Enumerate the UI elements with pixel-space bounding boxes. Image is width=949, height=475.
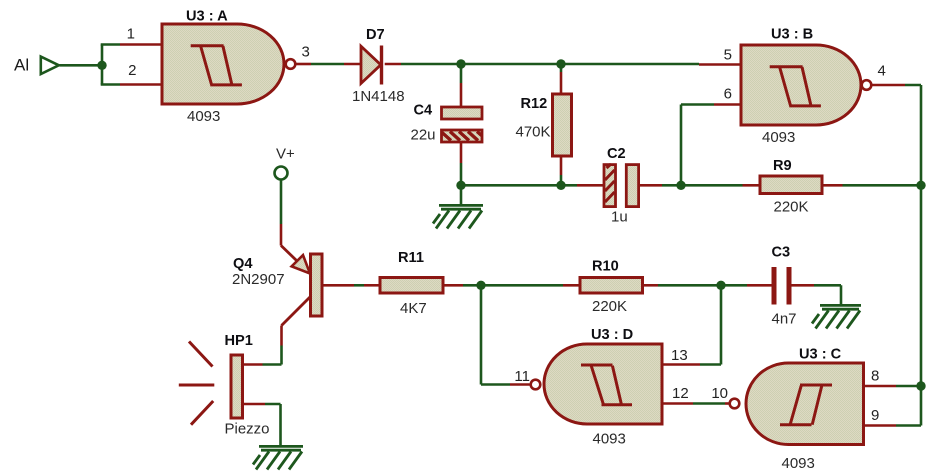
svg-text:22u: 22u (411, 127, 436, 144)
svg-text:U3 : D: U3 : D (591, 327, 633, 343)
wire R12 bottom lead (560, 156, 563, 175)
diode D7 (352, 27, 405, 105)
node R11/R10/pin11 (476, 281, 485, 290)
svg-text:2N2907: 2N2907 (232, 271, 285, 288)
svg-text:6: 6 (724, 86, 732, 103)
svg-text:11: 11 (514, 368, 530, 385)
wire node to R10 (481, 284, 563, 287)
svg-text:4n7: 4n7 (772, 311, 797, 328)
wire Q4 collector to HP1 (280, 326, 283, 346)
ground G1 (433, 205, 483, 228)
svg-text:R9: R9 (773, 158, 792, 174)
wire R9 right (822, 184, 843, 187)
ground G2 (253, 446, 303, 469)
svg-text:Al: Al (14, 56, 29, 75)
svg-text:9: 9 (871, 407, 879, 424)
capacitor C3 (772, 245, 797, 328)
wire middle ground tap (460, 185, 463, 204)
svg-text:3: 3 (302, 44, 310, 61)
node top wire C4 tap (456, 59, 465, 68)
wire pin 11 riser (481, 285, 510, 384)
node right rail R9 (916, 181, 925, 190)
wire pin 8 (864, 385, 897, 388)
svg-text:C4: C4 (414, 103, 434, 119)
svg-text:4093: 4093 (593, 431, 626, 448)
svg-text:4093: 4093 (187, 108, 220, 125)
svg-text:220K: 220K (774, 199, 809, 216)
svg-text:C2: C2 (607, 146, 626, 162)
resistor R11 (380, 250, 443, 317)
svg-text:HP1: HP1 (225, 333, 253, 349)
svg-text:R10: R10 (592, 259, 619, 275)
wire HP1 bottom to ground (243, 403, 266, 406)
wire node to C3 (721, 284, 747, 287)
svg-text:U3 : C: U3 : C (799, 347, 842, 363)
svg-text:5: 5 (724, 47, 732, 64)
wire Q4 base to R11 (322, 284, 354, 287)
svg-text:1N4148: 1N4148 (352, 88, 405, 105)
resistor R9 (760, 158, 822, 216)
svg-text:1u: 1u (611, 209, 628, 226)
svg-text:10: 10 (711, 385, 728, 402)
node top wire R12 tap (556, 59, 565, 68)
capacitor C4 (411, 103, 483, 144)
ground G3 (812, 305, 861, 328)
svg-text:4: 4 (878, 63, 886, 80)
gate U3:C (730, 347, 864, 473)
svg-text:D7: D7 (366, 27, 385, 43)
wire pin 4 output down right side (872, 84, 905, 87)
svg-text:V+: V+ (276, 146, 295, 163)
speaker HP1 (179, 333, 270, 438)
svg-text:2: 2 (128, 62, 136, 79)
wire pin 12 to pin 10 (662, 402, 693, 405)
node middle C4 (456, 181, 465, 190)
wire C4 top lead (460, 64, 463, 83)
wire input split vertical (101, 45, 104, 85)
node middle pin6 tap (676, 181, 685, 190)
gate U3:B (741, 27, 871, 147)
wire to pin 1 (101, 43, 120, 46)
wire pin 3 output (296, 63, 311, 66)
gate U3:D (531, 327, 662, 448)
wire middle run left (461, 184, 577, 187)
svg-text:12: 12 (672, 385, 689, 402)
svg-text:220K: 220K (592, 298, 627, 315)
wire to pin 2 (101, 83, 120, 86)
svg-text:4093: 4093 (782, 455, 815, 472)
wire pin 6 branch (681, 105, 714, 186)
wire pin 13 riser (700, 285, 721, 364)
svg-text:Q4: Q4 (233, 256, 253, 272)
svg-text:Piezzo: Piezzo (225, 421, 270, 438)
gate U3:A (162, 9, 295, 126)
wire C3 right to ground (792, 284, 815, 287)
node R10/C3/pin13 (716, 281, 725, 290)
svg-text:4093: 4093 (762, 129, 795, 146)
svg-text:13: 13 (671, 347, 688, 364)
wire Al to node (60, 64, 103, 67)
wire V+ to Q4 emitter (280, 180, 283, 225)
svg-text:R11: R11 (398, 250, 424, 266)
wire C4 bottom lead (460, 142, 463, 163)
wire R10 right to node (643, 284, 659, 287)
input terminal Al (41, 57, 59, 74)
svg-text:1: 1 (127, 26, 135, 43)
svg-text:470K: 470K (516, 124, 551, 141)
wire R11 right to node (443, 284, 463, 287)
wire R12 top lead (560, 64, 563, 72)
resistor R10 (580, 259, 643, 316)
svg-text:8: 8 (871, 368, 879, 385)
power terminal V+ (275, 146, 296, 180)
capacitor C2 (604, 146, 639, 226)
wire right rail down (896, 185, 921, 425)
svg-text:U3 : A: U3 : A (186, 9, 228, 25)
node middle R12 (556, 181, 565, 190)
svg-text:4K7: 4K7 (400, 300, 427, 317)
svg-text:U3 : B: U3 : B (771, 27, 813, 43)
transistor Q4 (232, 246, 322, 326)
svg-text:C3: C3 (772, 245, 791, 261)
node Al junction (97, 61, 106, 70)
svg-text:R12: R12 (521, 96, 548, 112)
node right rail pin 8 (916, 381, 925, 390)
wire C2 right to R9 (639, 184, 662, 187)
resistor R12 (516, 94, 572, 156)
wire diode cathode to U3:B pin 5 (385, 63, 401, 66)
